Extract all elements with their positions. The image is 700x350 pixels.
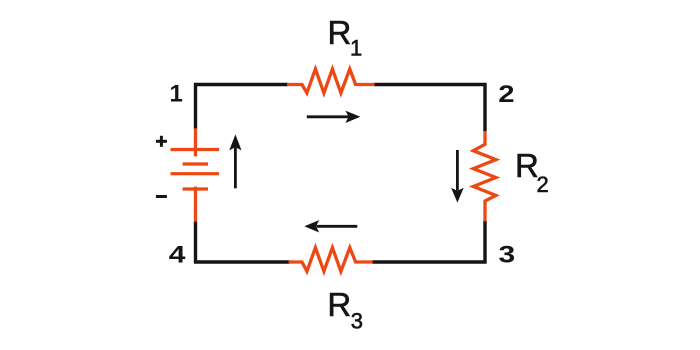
battery plate short bottom <box>183 187 208 190</box>
wire bottom-right segment <box>372 221 485 262</box>
svg-text:3: 3 <box>351 308 363 333</box>
svg-text:R: R <box>515 147 539 184</box>
label R2 <box>515 147 549 197</box>
battery plate long top <box>171 148 220 151</box>
wire bottom-left segment <box>196 222 291 263</box>
svg-text:R: R <box>328 14 352 51</box>
plus sign <box>156 136 167 147</box>
resistor R1 <box>287 69 375 93</box>
battery bottom lead <box>194 187 197 222</box>
current arrow down (left of R2) <box>451 150 464 203</box>
battery top lead <box>194 128 197 156</box>
svg-text:R: R <box>327 286 351 323</box>
battery plate short upper <box>183 162 208 165</box>
label R3 <box>327 286 363 333</box>
current arrow right (under R1) <box>307 111 361 123</box>
resistor R2 <box>473 131 496 221</box>
current arrow left (above R3) <box>304 220 357 232</box>
wire top-left segment <box>196 85 289 130</box>
resistor R3 <box>289 248 373 272</box>
svg-text:1: 1 <box>350 35 362 60</box>
battery plate long lower <box>171 172 220 175</box>
svg-text:3: 3 <box>499 240 516 267</box>
label R1 <box>328 14 363 60</box>
minus sign <box>156 195 167 198</box>
svg-text:4: 4 <box>169 240 186 267</box>
svg-text:2: 2 <box>537 172 549 197</box>
current arrow up (battery) <box>229 134 241 188</box>
svg-text:1: 1 <box>170 81 183 108</box>
wire top-right segment <box>374 85 485 132</box>
svg-text:2: 2 <box>498 80 514 107</box>
